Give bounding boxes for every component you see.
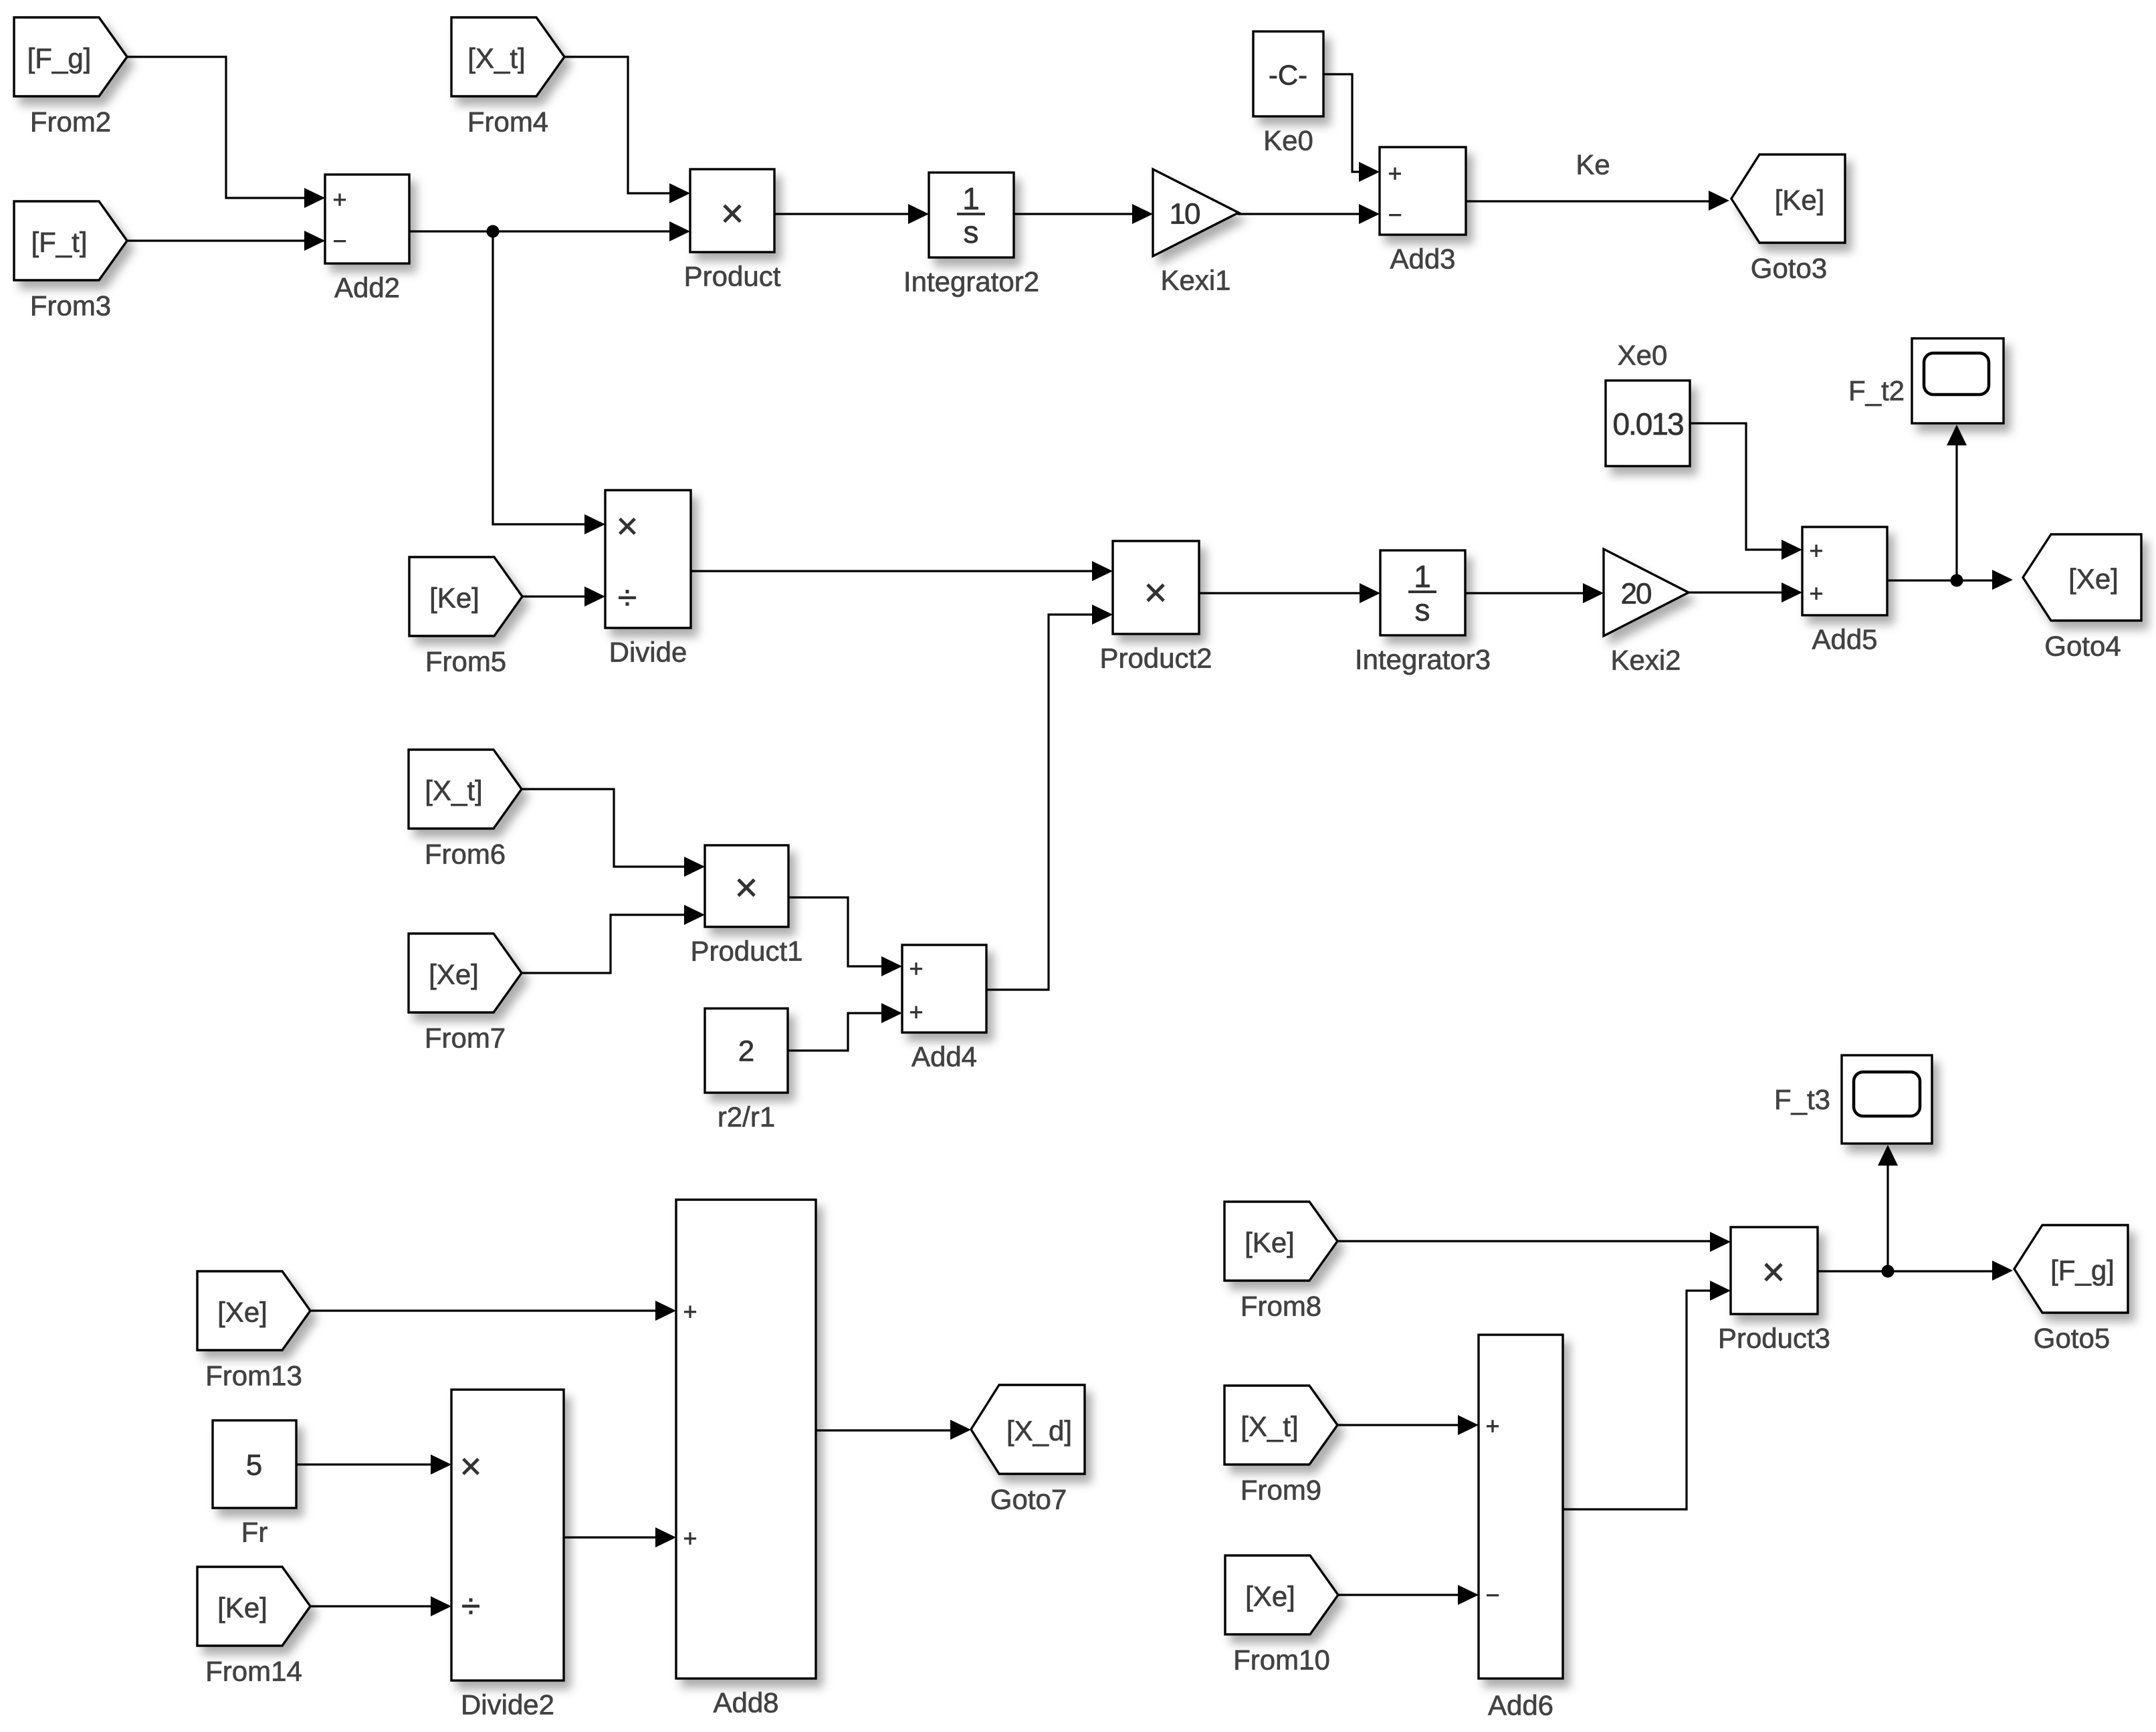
wire Product1 to Add4 +1: [788, 897, 902, 976]
svg-text:From7: From7: [425, 1022, 506, 1054]
svg-text:Product3: Product3: [1718, 1323, 1830, 1354]
svg-text:0.013: 0.013: [1612, 407, 1683, 441]
junction node after Product3: [1882, 1265, 1895, 1278]
wire r2/r1 to Add4 +2: [788, 1003, 902, 1051]
svg-text:+: +: [1388, 160, 1402, 187]
wire junction up to scope F_t3: [1878, 1145, 1898, 1271]
svg-text:Xe0: Xe0: [1618, 340, 1668, 371]
divide block Divide: [605, 490, 691, 668]
wire Add5 to Goto4: [1887, 570, 2013, 590]
svg-text:[Xe]: [Xe]: [217, 1297, 267, 1328]
constant block Fr value 5: [213, 1420, 296, 1548]
wire From6 to Product1 input1: [522, 789, 705, 877]
svg-text:Goto4: Goto4: [2044, 631, 2121, 662]
product block Product2: [1099, 541, 1212, 674]
gain triangle Kexi1 value 10: [1153, 169, 1238, 296]
wire From9 to Add6 +: [1337, 1415, 1479, 1435]
goto tag Goto4 [Xe]: [2023, 534, 2141, 662]
svg-text:[X_t]: [X_t]: [425, 775, 482, 806]
svg-text:Ke: Ke: [1576, 149, 1610, 181]
sum block Add8: [676, 1200, 816, 1719]
svg-text:From5: From5: [425, 646, 506, 677]
wire Kexi2 to Add5 +2: [1689, 582, 1802, 603]
svg-text:s: s: [1415, 592, 1430, 627]
wire Add6 up to Product3 input2: [1563, 1281, 1731, 1509]
junction node after Add5: [1951, 574, 1963, 587]
goto tag Goto5 [F_g]: [2014, 1225, 2128, 1354]
from tag From8 [Ke]: [1224, 1202, 1337, 1322]
svg-text:10: 10: [1170, 198, 1200, 231]
from tag From2 [F_g]: [14, 17, 127, 138]
svg-text:−: −: [1485, 1582, 1499, 1609]
wire Divide2 to Add8 +2: [564, 1527, 676, 1547]
svg-text:F_t2: F_t2: [1848, 375, 1905, 407]
wire From3 to Add2 -: [128, 231, 325, 251]
wire Divide to Product2 input1: [691, 561, 1113, 581]
svg-text:Divide2: Divide2: [461, 1689, 554, 1721]
constant block r2/r1 value 2: [705, 1008, 788, 1133]
svg-text:From14: From14: [205, 1656, 302, 1687]
from tag From5 [Ke]: [409, 557, 522, 677]
sum block Add6: [1479, 1335, 1563, 1721]
wire From7 to Product1 input2: [522, 905, 705, 973]
svg-text:From10: From10: [1233, 1644, 1330, 1676]
sum block Add5: [1802, 527, 1887, 655]
svg-text:Product: Product: [684, 261, 781, 292]
svg-text:−: −: [1388, 201, 1402, 229]
svg-text:Product1: Product1: [690, 936, 802, 967]
label Xe0 above constant: [1618, 340, 1668, 371]
product block Product3: [1718, 1227, 1830, 1354]
svg-text:[Ke]: [Ke]: [217, 1592, 267, 1624]
scope block F_t2: [1848, 338, 2004, 423]
svg-text:Add8: Add8: [713, 1687, 778, 1719]
svg-text:+: +: [1809, 537, 1823, 564]
svg-text:From9: From9: [1241, 1475, 1321, 1506]
svg-text:r2/r1: r2/r1: [718, 1101, 775, 1133]
svg-text:-C-: -C-: [1269, 60, 1307, 91]
wire Add4 up to Product2 input2: [986, 605, 1113, 990]
integrator block Integrator3 1/s: [1355, 550, 1491, 675]
svg-text:Divide: Divide: [609, 637, 687, 668]
wire Product3 to Goto5: [1818, 1261, 2013, 1281]
wire junction down to Divide x-input: [493, 231, 605, 534]
wire From8 to Product3 input1: [1337, 1232, 1731, 1252]
svg-text:÷: ÷: [461, 1587, 481, 1626]
sum block Add4: [902, 945, 986, 1073]
svg-text:[Xe]: [Xe]: [2068, 563, 2119, 594]
svg-text:+: +: [332, 186, 346, 213]
svg-text:[Ke]: [Ke]: [429, 582, 479, 614]
from tag From10 [Xe]: [1225, 1555, 1338, 1676]
svg-text:+: +: [909, 998, 923, 1026]
wire From10 to Add6 -: [1338, 1585, 1479, 1605]
svg-text:Fr: Fr: [241, 1517, 268, 1548]
constant block Ke0 value -C-: [1253, 31, 1323, 156]
svg-text:From6: From6: [425, 839, 506, 870]
scope block F_t3: [1774, 1055, 1932, 1144]
svg-text:Add4: Add4: [911, 1041, 977, 1073]
wire Integrator3 to Kexi2: [1465, 583, 1604, 603]
svg-text:Goto5: Goto5: [2034, 1323, 2110, 1354]
svg-text:Integrator2: Integrator2: [903, 266, 1039, 298]
wire From14 to Divide2 divisor: [310, 1596, 451, 1616]
divide block Divide2: [451, 1390, 564, 1721]
junction node after Add2: [487, 225, 500, 238]
svg-text:+: +: [1485, 1412, 1499, 1440]
svg-text:20: 20: [1621, 578, 1651, 611]
svg-text:1: 1: [962, 181, 980, 216]
from tag From3 [F_t]: [14, 201, 127, 322]
wire From4 to Product input 1: [565, 57, 690, 203]
svg-text:From3: From3: [30, 290, 111, 322]
product block Product1: [690, 845, 802, 967]
svg-text:[F_g]: [F_g]: [27, 43, 92, 74]
svg-text:Integrator3: Integrator3: [1355, 644, 1491, 675]
svg-text:Goto7: Goto7: [990, 1484, 1067, 1515]
svg-text:×: ×: [617, 505, 639, 547]
wire Fr to Divide2 x-input: [296, 1454, 451, 1475]
svg-text:Kexi2: Kexi2: [1610, 645, 1681, 676]
wire From13 to Add8 +1: [310, 1301, 676, 1321]
constant block Xe0 value 0.013: [1606, 381, 1690, 466]
svg-text:÷: ÷: [618, 578, 637, 617]
goto tag Goto3 [Ke]: [1731, 154, 1845, 284]
wire From2 to Add2 +: [128, 57, 325, 208]
svg-text:From8: From8: [1241, 1291, 1321, 1322]
from tag From6 [X_t]: [409, 750, 522, 870]
svg-text:From13: From13: [205, 1360, 302, 1392]
svg-text:×: ×: [1761, 1250, 1785, 1295]
svg-text:5: 5: [246, 1449, 262, 1482]
svg-text:F_t3: F_t3: [1774, 1084, 1830, 1115]
svg-text:From2: From2: [30, 106, 111, 138]
svg-text:[Ke]: [Ke]: [1245, 1227, 1295, 1259]
from tag From14 [Ke]: [197, 1567, 310, 1687]
wire junction up to scope F_t2: [1947, 425, 1967, 580]
from tag From7 [Xe]: [409, 934, 522, 1054]
svg-text:[Ke]: [Ke]: [1775, 185, 1825, 216]
svg-text:Ke0: Ke0: [1263, 125, 1313, 156]
wire Kexi1 to Add3 -: [1238, 204, 1380, 224]
svg-text:[F_t]: [F_t]: [31, 227, 87, 258]
wire Add3 to Goto3: [1466, 191, 1729, 211]
from tag From4 [X_t]: [451, 17, 564, 138]
svg-text:[Xe]: [Xe]: [429, 959, 479, 990]
svg-text:1: 1: [1414, 559, 1431, 594]
svg-text:+: +: [683, 1525, 697, 1552]
wire Ke0 to Add3 +: [1323, 74, 1380, 182]
from tag From13 [Xe]: [197, 1271, 310, 1392]
svg-text:−: −: [332, 227, 346, 255]
svg-text:From4: From4: [467, 106, 548, 138]
svg-text:2: 2: [738, 1035, 754, 1068]
sum block Add3: [1380, 147, 1466, 275]
wire Add2 output to Product: [409, 221, 690, 241]
goto tag Goto7 [X_d]: [971, 1385, 1085, 1515]
svg-text:×: ×: [1144, 570, 1167, 615]
svg-text:Add6: Add6: [1488, 1690, 1553, 1721]
integrator block Integrator2 1/s: [903, 173, 1039, 298]
svg-text:[Xe]: [Xe]: [1245, 1581, 1295, 1612]
svg-text:×: ×: [460, 1445, 482, 1487]
wire Integrator2 to Kexi1: [1014, 204, 1153, 224]
svg-text:s: s: [964, 215, 979, 249]
svg-text:+: +: [909, 955, 923, 982]
gain triangle Kexi2 value 20: [1604, 549, 1689, 676]
wire 0.013 to Add5 +1: [1690, 423, 1802, 560]
svg-text:Add3: Add3: [1390, 243, 1455, 275]
signal label Ke: [1576, 149, 1610, 181]
wire Product2 to Integrator3: [1199, 583, 1380, 603]
product block Product: [684, 169, 781, 292]
from tag From9 [X_t]: [1224, 1386, 1337, 1506]
wire Product to Integrator2: [774, 204, 929, 224]
svg-text:Goto3: Goto3: [1751, 253, 1827, 284]
svg-text:+: +: [1809, 580, 1823, 607]
svg-text:Add5: Add5: [1812, 624, 1877, 655]
svg-text:[X_t]: [X_t]: [467, 43, 525, 74]
wire From5 to Divide divisor: [522, 586, 605, 607]
svg-text:×: ×: [734, 865, 758, 910]
svg-text:+: +: [683, 1298, 697, 1325]
svg-text:Add2: Add2: [334, 272, 400, 304]
svg-text:[X_t]: [X_t]: [1241, 1411, 1298, 1442]
wire Add8 to Goto7: [816, 1420, 971, 1440]
sum block Add2: [325, 175, 409, 304]
svg-text:[X_d]: [X_d]: [1006, 1415, 1072, 1446]
svg-text:Product2: Product2: [1099, 643, 1212, 674]
svg-text:×: ×: [720, 191, 744, 236]
svg-text:Kexi1: Kexi1: [1160, 265, 1230, 296]
svg-text:[F_g]: [F_g]: [2050, 1255, 2115, 1286]
